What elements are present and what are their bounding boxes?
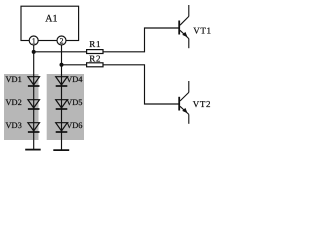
svg-text:R2: R2 — [89, 53, 101, 63]
svg-text:VD2: VD2 — [6, 98, 22, 107]
svg-text:VT1: VT1 — [193, 26, 211, 36]
svg-text:VT2: VT2 — [193, 99, 211, 109]
svg-text:VD1: VD1 — [6, 75, 22, 84]
svg-text:2: 2 — [60, 36, 64, 45]
svg-text:VD4: VD4 — [66, 75, 83, 84]
svg-text:1: 1 — [32, 36, 36, 45]
svg-text:VD5: VD5 — [66, 98, 82, 107]
svg-text:A1: A1 — [45, 14, 57, 25]
svg-text:VD6: VD6 — [66, 121, 82, 130]
svg-text:VD3: VD3 — [6, 121, 22, 130]
svg-text:R1: R1 — [89, 39, 101, 49]
